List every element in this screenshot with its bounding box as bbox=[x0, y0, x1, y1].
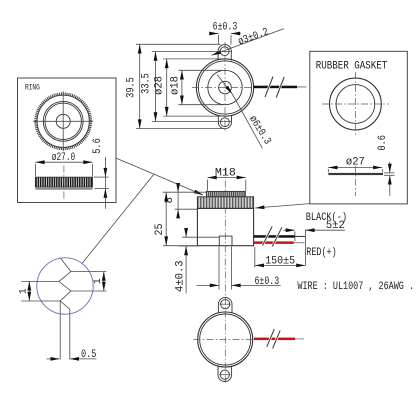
ring detail box bbox=[18, 78, 117, 203]
dimension 5±2 (bare lead) bbox=[284, 220, 346, 265]
bottom view circles bbox=[198, 312, 253, 367]
svg-text:5.6: 5.6 bbox=[92, 138, 104, 154]
tooth peak extension lines bbox=[71, 272, 106, 291]
svg-text:5±2: 5±2 bbox=[326, 220, 345, 232]
dimension 6±0.3 (tab width, top view) bbox=[210, 22, 241, 45]
svg-text:4±0.3: 4±0.3 bbox=[175, 260, 187, 292]
dimension 0.5 (tooth depth) bbox=[47, 349, 97, 361]
dimension 0.6 (gasket thickness) bbox=[377, 135, 395, 196]
dimension 39.5 bbox=[126, 44, 223, 128]
side view wire break slashes bbox=[263, 227, 282, 247]
svg-text:RING: RING bbox=[25, 84, 40, 93]
ring side view center line bbox=[63, 166, 65, 200]
note WIRE : UL1007 , 26AWG . bbox=[297, 281, 414, 293]
buzzer top view body circles bbox=[196, 59, 253, 116]
svg-text:ø28: ø28 bbox=[154, 76, 166, 95]
svg-text:39.5: 39.5 bbox=[126, 77, 138, 98]
label RUBBER GASKET bbox=[316, 60, 388, 72]
side view red wire bbox=[254, 241, 305, 244]
svg-text:6±0.3: 6±0.3 bbox=[254, 276, 279, 288]
svg-text:RUBBER GASKET: RUBBER GASKET bbox=[316, 60, 388, 72]
tooth profile zigzag bbox=[59, 258, 71, 359]
gasket crosshair center lines bbox=[322, 72, 389, 137]
top view wire bbox=[253, 86, 306, 89]
ring top view knurled circle bbox=[36, 94, 91, 149]
gasket side view strip bbox=[328, 173, 383, 175]
svg-text:0.6: 0.6 bbox=[377, 135, 389, 151]
dimension 33.5 bbox=[141, 52, 232, 122]
dimension 6±0.3 (notch width) bbox=[197, 247, 281, 290]
rubber gasket box bbox=[310, 51, 408, 204]
dimension Ø27 (gasket) bbox=[328, 157, 382, 173]
dimension 4±0.3 (notch depth) bbox=[175, 229, 220, 294]
svg-text:6±0.3: 6±0.3 bbox=[213, 22, 238, 34]
gasket side view center line bbox=[354, 166, 356, 196]
side view body bbox=[197, 208, 253, 245]
leader Ø6±0.3 (center hole) bbox=[217, 75, 273, 149]
dimension Ø28 bbox=[154, 59, 223, 116]
svg-text:1: 1 bbox=[93, 278, 104, 284]
bottom view red wire bbox=[254, 338, 304, 341]
label BLACK(-) bbox=[306, 212, 347, 224]
leader line from ring box to side view knurl bbox=[116, 158, 203, 195]
dimension 8 (knurl height) bbox=[163, 183, 207, 217]
dimension Ø27.0 bbox=[35, 152, 92, 177]
knurl tooth detail circle (blue) bbox=[37, 258, 93, 314]
leader from gasket box to knurl bbox=[255, 204, 310, 208]
svg-text:150±5: 150±5 bbox=[265, 256, 295, 268]
side view black wire bbox=[254, 235, 306, 238]
top view lower mounting tab bbox=[218, 115, 231, 129]
ring crosshair center lines bbox=[33, 91, 93, 151]
bottom view wire break slashes bbox=[267, 329, 280, 348]
svg-text:0.5: 0.5 bbox=[81, 349, 97, 361]
dimension 5.6 bbox=[92, 138, 109, 209]
bottom view crosshair center line bbox=[194, 339, 259, 341]
dimension 1 (pitch, left) bbox=[18, 281, 29, 301]
svg-text:33.5: 33.5 bbox=[141, 73, 153, 94]
side view center line (through bottom view) bbox=[224, 168, 226, 383]
svg-text:1: 1 bbox=[18, 288, 29, 294]
top view wire break slashes bbox=[265, 77, 284, 98]
svg-text:RED(+): RED(+) bbox=[306, 247, 336, 259]
dimension 150±5 (wire length) bbox=[255, 247, 306, 268]
label RING bbox=[25, 84, 40, 93]
side view bottom notch bbox=[219, 236, 232, 246]
ring side view knurled rect bbox=[35, 177, 92, 189]
bottom view lower tab bbox=[218, 366, 232, 382]
svg-text:WIRE : UL1007 , 26AWG .: WIRE : UL1007 , 26AWG . bbox=[297, 281, 414, 293]
top view upper mounting tab bbox=[218, 45, 231, 61]
svg-text:ø18: ø18 bbox=[169, 76, 181, 95]
leader line to tooth detail circle bbox=[82, 174, 154, 263]
top view crosshair center lines bbox=[192, 42, 258, 133]
side view M18 threaded neck bbox=[206, 191, 245, 196]
svg-text:25: 25 bbox=[154, 224, 166, 236]
dimension M18 bbox=[208, 167, 246, 191]
tooth valley extension lines bbox=[21, 281, 60, 301]
bottom view upper tab bbox=[218, 297, 232, 313]
dimension Ø18 bbox=[169, 70, 223, 104]
leader Ø3±0.2 (tab hole) bbox=[212, 26, 285, 55]
gasket top view circles bbox=[330, 78, 382, 130]
side view knurl band bbox=[197, 197, 253, 209]
dimension 1 (pitch, right) bbox=[93, 272, 104, 291]
label RED(+) bbox=[306, 247, 336, 259]
dimension 25 (body height) bbox=[154, 192, 198, 246]
